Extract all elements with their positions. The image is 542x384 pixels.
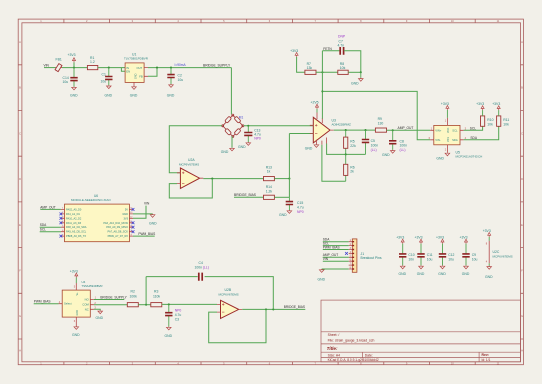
resistor R14 1.2k [264,195,275,199]
svg-text:GND: GND [130,93,138,97]
svg-text:BRIDGE_BIAS: BRIDGE_BIAS [234,193,257,197]
svg-text:GND: GND [135,73,138,79]
ground at U6 [150,214,155,217]
wire rail down to bridge [230,68,232,115]
wire AMP_OUT to U6 [40,208,61,210]
svg-text:Sheet: /: Sheet: / [328,333,340,337]
svg-text:10k: 10k [487,123,493,127]
wire C4 rail [146,277,273,310]
ground below C2 [169,84,174,87]
svg-text:Breakout Pins: Breakout Pins [361,256,382,260]
svg-text:+3V3: +3V3 [68,53,76,57]
junction C4 drop [272,308,274,310]
svg-text:B: B [19,86,21,90]
svg-text:M1: M1 [239,116,244,120]
wire R3 to U2B [162,303,217,305]
svg-text:PA11_A3_D3: PA11_A3_D3 [66,221,82,225]
svg-text:4.7n: 4.7n [338,44,345,48]
svg-text:C15: C15 [297,201,303,205]
wire bridge bottom to ground [231,136,233,147]
svg-text:5V: 5V [125,207,128,211]
svg-text:GND: GND [221,150,229,154]
no-connect mark J1 pin 4 [345,252,348,255]
svg-text:D: D [521,177,523,181]
svg-text:GND: GND [96,316,104,320]
ground below C8 [390,150,395,153]
ground below U1 [132,86,137,89]
svg-text:+3V3: +3V3 [460,236,468,240]
wire VIN to J1 [323,260,349,262]
svg-text:100n: 100n [371,144,379,148]
svg-text:File: strain_gauge_3.kicad_sch: File: strain_gauge_3.kicad_sch [328,338,375,342]
svg-text:PB09_A7_D7_RX: PB09_A7_D7_RX [108,234,129,238]
wire node A vertical [288,134,290,198]
wire feedback bottom rail [327,144,366,155]
svg-text:(LL): (LL) [371,148,377,152]
wire U4 COM to R2 [94,304,127,306]
U6 pin stubs [61,209,133,236]
wire PWM_BIAS to U4 select [34,303,59,305]
svg-text:+3V3: +3V3 [483,229,491,233]
wire U4 NO pin [94,299,124,301]
op-amp U2C power unit [483,229,513,279]
resistor R9 130 [375,128,386,132]
analog switch U4 [62,290,90,317]
wire C7 to R8 right node [344,51,361,73]
svg-text:22k: 22k [350,144,356,148]
wire AMP_OUT to J1 [323,256,349,258]
svg-text:AD8422BRMZ: AD8422BRMZ [332,122,352,126]
wire bridge left arm to U2A [169,126,222,173]
svg-text:+3V3: +3V3 [492,102,500,106]
svg-text:FB1: FB1 [56,58,62,62]
wire U2A output [203,178,263,180]
svg-text:1.2: 1.2 [90,60,95,64]
svg-text:C1: C1 [102,73,106,77]
svg-text:Title:: Title: [327,346,338,351]
capacitor C5 100n [365,130,367,154]
wire PWM_BIAS to J1 [323,249,349,251]
junction FETN branch [321,90,323,92]
wire U2B feedback loop [209,309,266,342]
ground below C15 [287,210,292,213]
svg-text:H: H [19,348,21,352]
svg-text:+3V3: +3V3 [441,102,449,106]
svg-text:C12: C12 [448,253,454,257]
capacitor C14 10u [73,68,75,87]
svg-text:C11: C11 [427,253,433,257]
svg-text:GND: GND [105,93,113,97]
svg-text:1.2k: 1.2k [266,189,273,193]
svg-text:U2C: U2C [493,250,500,254]
svg-text:+3V3: +3V3 [70,269,78,273]
U6 right pin names [103,207,128,238]
svg-text:PA7_A8_D8_SCK: PA7_A8_D8_SCK [108,230,129,234]
svg-text:GND: GND [167,93,175,97]
U4 pin stubs [59,283,94,326]
wire J1 gnd pin [322,268,349,270]
junction C5 top [364,129,366,131]
svg-text:+3V3: +3V3 [396,236,404,240]
svg-text:MCP6V67EMS: MCP6V67EMS [179,163,199,167]
svg-text:+3V3: +3V3 [290,49,298,53]
svg-text:GND: GND [279,213,287,217]
power symbol +3V3 above R10 [482,110,484,116]
ground below C13 [246,142,251,145]
wire U1 OUT rail [148,67,231,69]
svg-text:+3V3: +3V3 [415,236,423,240]
svg-text:VIN: VIN [144,202,150,206]
svg-text:VIN: VIN [44,63,50,67]
capacitor C4 100n [199,273,202,281]
svg-text:AMP_OUT: AMP_OUT [398,126,414,130]
wire R1 to U1 [98,68,125,72]
svg-text:GND: GND [165,334,173,338]
no-connect marks U6 left [60,213,63,216]
wire R8 to gnd node [348,71,361,73]
svg-text:GND: GND [485,275,493,279]
wire FETN vertical [321,51,323,119]
junction U2B feedback [265,308,267,310]
svg-text:NP0: NP0 [175,309,182,313]
wire +3V3 to R7 [297,57,305,72]
svg-text:GND: GND [238,145,246,149]
svg-text:C3: C3 [175,317,179,321]
svg-text:GND: GND [462,272,470,276]
wire node up to C4 rail [145,277,147,305]
power symbol +3V3 above U5 [446,110,448,118]
resistor R13 1k [264,177,275,181]
svg-text:GND: GND [399,272,407,276]
resistor R2 100k [127,303,138,307]
capacitor C1 10u [108,68,110,86]
capacitor C2 10u [170,68,172,84]
left ticks [18,65,22,339]
svg-text:H: H [521,348,523,352]
svg-text:FB: FB [139,74,143,78]
wire U6 3V3 pin to VIN label [133,206,146,219]
wire SCL to R10 [464,126,483,130]
resistor R5 22k [345,130,347,154]
svg-text:VIN-: VIN- [435,138,440,142]
power symbol +3V3 above R11 [498,110,500,116]
wire VIN to FB1 [44,67,56,69]
svg-text:Size: A4: Size: A4 [328,353,341,357]
junction R8 gnd node [360,71,362,73]
svg-text:V+: V+ [76,292,79,296]
junction U2A feedback node [211,178,213,180]
svg-text:NP0: NP0 [297,210,304,214]
wire FB1 to R1 [62,67,87,69]
junction R6 top [345,153,347,155]
wire R6 bottom loop to U3 RG [322,145,346,182]
svg-text:GND: GND [72,333,80,337]
svg-text:GND: GND [149,222,157,226]
svg-text:10k: 10k [503,123,509,127]
wire FETN branch to U5 VIN- [322,91,430,139]
svg-text:R10: R10 [487,118,493,122]
svg-text:GND: GND [305,146,313,150]
svg-text:EN: EN [126,69,130,73]
svg-text:GND: GND [436,157,444,161]
power symbol +3V3 for divider [295,53,298,57]
svg-text:10k: 10k [340,66,346,70]
svg-text:GND: GND [76,310,79,316]
bottom ticks [64,362,475,365]
svg-text:PA5_A9_D9_MISO: PA5_A9_D9_MISO [106,225,128,229]
top ticks [64,19,475,23]
svg-text:110k: 110k [153,295,160,299]
svg-text:4.7u: 4.7u [297,206,304,210]
resistor R6 2k [345,154,347,181]
wire R13 to node A [274,178,289,180]
MCU module U6 Seeeduino XIAO [65,204,130,242]
ground at divider [360,72,362,78]
power symbol +3V3 at VIN node [73,62,75,67]
svg-text:SCL: SCL [452,129,458,133]
capacitor C11 10u decoupling [415,236,433,276]
svg-text:4.7u: 4.7u [175,313,182,317]
svg-text:VDD: VDD [447,128,450,133]
svg-text:TS5A4594DBVR: TS5A4594DBVR [82,284,103,288]
svg-text:E: E [521,223,523,227]
svg-text:PA6_A10_D10_MOSI: PA6_A10_D10_MOSI [103,221,128,225]
resistor R10 10k pullup [481,116,485,126]
U4 pin numbers [59,285,97,323]
svg-text:MODULE-SEEEDUINO-XIAO: MODULE-SEEEDUINO-XIAO [71,198,111,202]
ground below C1 [107,85,112,88]
svg-text:(LL): (LL) [203,266,209,270]
U6 pin numbers [62,208,133,237]
svg-text:VIN: VIN [323,257,329,261]
junction C8 node [392,129,394,131]
pin stubs U5 [430,118,463,153]
capacitor C13 4.7u [247,126,249,142]
wire U6 PWM pin [133,235,155,237]
svg-text:PA8_A4_D4_SDA: PA8_A4_D4_SDA [66,225,87,229]
svg-text:KiCad E.D.A. 8.0.9-1-g2f51004: KiCad E.D.A. 8.0.9-1-g2f51004dd42 [328,358,379,362]
junction C2 node [170,67,172,69]
ground at U4 NC [98,310,103,313]
ground below U4 [74,326,79,329]
wire BRIDGE_BIAS to R14 [234,196,264,198]
svg-text:10u: 10u [101,79,107,83]
pin numbers U5 [429,119,467,152]
wire SDA to U6 [40,226,61,228]
wire U4 NC to ground [94,309,100,310]
svg-text:+3V3: +3V3 [436,236,444,240]
svg-text:Select: Select [64,302,72,306]
junction VIN node [73,67,75,69]
resistor R1 1.2 [87,66,97,70]
svg-text:SCL: SCL [40,228,46,232]
svg-text:Date:: Date: [365,353,373,357]
svg-text:A: A [521,40,523,44]
regulator U1 TLV75801 [125,63,144,83]
ADC U5 MCP3421 [434,125,460,144]
grid reference numbers bottom [40,361,500,365]
svg-text:COM: COM [82,303,89,307]
wire R14 to node A [274,196,289,198]
junction R2-R3 node [145,304,147,306]
svg-text:PWM_BIAS: PWM_BIAS [323,245,340,249]
svg-text:NO: NO [85,298,89,302]
svg-text:Id: 1/1: Id: 1/1 [482,358,491,362]
resistor R11 10k pullup [497,116,501,126]
svg-text:1k: 1k [267,170,271,174]
ground below C14 [72,87,77,90]
svg-text:OUT: OUT [137,66,143,70]
svg-text:GND: GND [382,153,390,157]
wire bridge right arm to U3 [244,125,314,127]
resistor R8 10k [338,70,348,74]
svg-text:10u: 10u [427,257,433,261]
svg-text:G: G [521,314,523,318]
svg-text:PWM_BIAS: PWM_BIAS [138,232,155,236]
svg-text:10u: 10u [63,80,69,84]
svg-text:D: D [19,177,21,181]
svg-text:R2: R2 [131,290,135,294]
svg-text:PWM_BIAS: PWM_BIAS [34,300,51,304]
svg-text:VSS: VSS [447,137,450,142]
ferrite bead FB1 [55,64,62,72]
svg-text:3V3: 3V3 [123,216,128,220]
junction FB node [156,67,158,69]
svg-text:G: G [19,314,21,318]
junction C3 node [168,303,170,305]
wire U2A feedback loop [169,179,212,198]
resistor R7 13k [305,70,316,74]
capacitor C12 10u decoupling [436,236,455,276]
svg-text:C: C [19,131,21,135]
svg-text:PA10_A2_D2: PA10_A2_D2 [66,216,82,220]
svg-text:100k: 100k [130,295,138,299]
svg-text:NC: NC [85,307,89,311]
svg-text:MCP3421A0T-E/CH: MCP3421A0T-E/CH [456,155,483,159]
wire node A to U3 inverting input [289,133,313,135]
wire R9 to U5 [387,129,431,131]
svg-text:GND: GND [417,272,425,276]
svg-text:+2V5: +2V5 [311,101,319,105]
svg-text:PA02_A0_D0: PA02_A0_D0 [66,207,82,211]
svg-text:MCP6V67EMS: MCP6V67EMS [493,255,513,259]
svg-text:DNP: DNP [338,34,346,38]
capacitor C8 100n [392,130,394,150]
wire SDA to R11 [464,126,499,140]
svg-text:13k: 13k [307,66,313,70]
svg-text:R6: R6 [350,165,354,169]
op-amp U2B [221,300,239,318]
svg-text:100n: 100n [400,144,408,148]
svg-text:NP0: NP0 [254,136,261,140]
no-connect marks U6 right [132,208,135,211]
power symbol +3V3 above U4 [75,278,77,284]
ground at J1 [319,269,324,272]
svg-text:10u: 10u [472,257,478,261]
wire U2B output [242,308,305,310]
svg-text:BRIDGE_SUPPLY: BRIDGE_SUPPLY [100,296,127,300]
capacitor C9 10u decoupling [460,236,478,276]
capacitor C15 4.7u at node A [288,197,290,210]
svg-text:GND: GND [351,82,359,86]
wire U1 FB loop [148,68,157,77]
svg-text:A: A [19,40,21,44]
svg-text:I=90mA: I=90mA [175,63,187,67]
svg-text:C4: C4 [199,261,203,265]
svg-text:130: 130 [378,121,384,125]
svg-text:GND: GND [318,278,326,282]
power symbol +2V5 above U3 [316,109,318,113]
wire R7 to FETN node [316,71,338,73]
svg-text:BRIDGE_SUPPLY: BRIDGE_SUPPLY [203,63,231,67]
svg-text:VIN+: VIN+ [435,129,441,133]
svg-text:10u: 10u [178,78,184,82]
wire SCL to U6 [40,231,61,233]
svg-text:C: C [521,131,523,135]
wire R2 to R3 [138,304,151,306]
svg-text:AMP_OUT: AMP_OUT [40,205,55,209]
grid reference letters left/right [19,40,523,352]
svg-text:2k: 2k [350,170,354,174]
svg-text:SDA: SDA [470,136,477,140]
svg-text:B: B [521,86,523,90]
in-amp U3 AD8422 [313,117,330,143]
right ticks [521,65,524,339]
svg-text:C9: C9 [472,253,476,257]
connector J1 Breakout Pins [352,239,357,272]
junction FETN node [321,71,323,73]
junction C13 node [247,125,249,127]
capacitor C7 4.7n [340,47,343,55]
resistor R3 110k [151,303,162,307]
ground below bridge [230,148,235,151]
svg-text:GND: GND [438,272,446,276]
svg-text:100n: 100n [195,266,203,270]
junction R5 top [345,129,347,131]
svg-text:PA4_A1_D1: PA4_A1_D1 [66,212,80,216]
ground below U5 [445,152,450,155]
svg-text:GND: GND [122,212,128,216]
svg-text:10n: 10n [408,257,414,261]
svg-text:E: E [19,223,21,227]
junction C1 node [108,67,110,69]
ground below U3 [314,144,319,147]
bridge M1 (strain gauge wheatstone bridge) [222,114,244,137]
wire FETN to C7 [322,50,340,52]
wire U3 output [334,129,376,131]
wire SCL to J1 [323,245,349,247]
svg-text:SDA: SDA [40,223,47,227]
svg-text:R11: R11 [503,118,509,122]
svg-text:PB08_A6_D6_TX: PB08_A6_D6_TX [66,234,86,238]
svg-text:+3V3: +3V3 [476,102,484,106]
svg-text:C10: C10 [408,253,414,257]
svg-text:R5: R5 [350,139,354,143]
U6 left pin names [66,207,87,238]
pin stubs U1 [134,68,148,86]
capacitor C10 10n decoupling [396,236,415,276]
svg-text:SCL: SCL [470,126,476,130]
ground below C3 [167,327,172,330]
svg-text:R3: R3 [154,290,158,294]
junction node A [288,178,290,180]
op-amp U2A MCP6V67EMS [180,168,199,188]
svg-text:GND: GND [70,93,78,97]
svg-text:MCP6V67EMS: MCP6V67EMS [219,293,239,297]
svg-text:C8: C8 [400,139,404,143]
capacitor C3 4.7u [168,304,170,326]
wire SDA to J1 [323,241,349,243]
